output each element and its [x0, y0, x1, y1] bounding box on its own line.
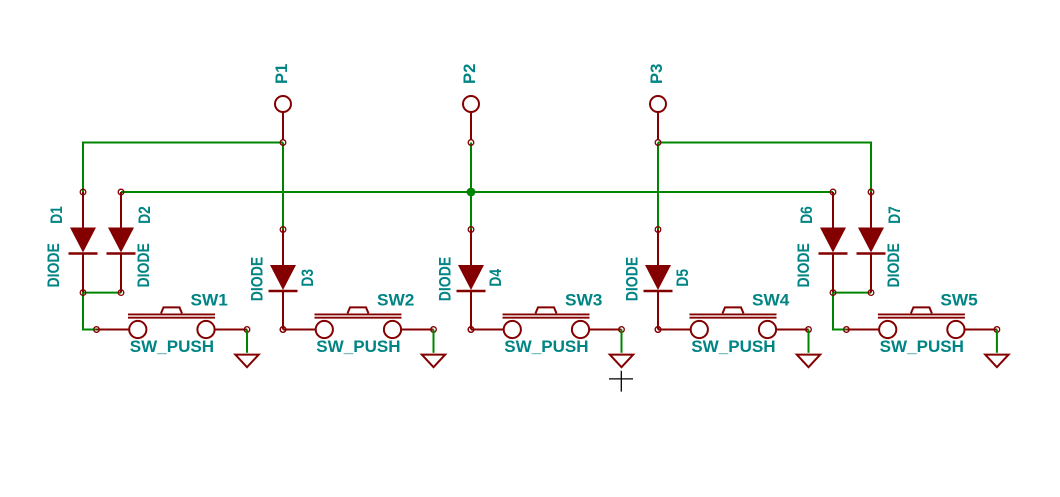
svg-text:SW_PUSH: SW_PUSH [316, 337, 400, 356]
ground [610, 355, 633, 368]
svg-text:DIODE: DIODE [134, 243, 153, 287]
svg-text:SW_PUSH: SW_PUSH [130, 337, 214, 356]
cursor crosshair [609, 371, 633, 392]
switch SW1 [94, 307, 250, 338]
wire P1 to D1 top [83, 143, 283, 193]
svg-text:SW5: SW5 [940, 290, 977, 309]
value DIODE (D3) [248, 257, 267, 301]
label P2 [460, 64, 479, 84]
diode D7 [857, 189, 886, 295]
label D5 [673, 269, 692, 287]
label P1 [272, 64, 291, 84]
diode D5 [644, 227, 673, 333]
wire to ground [433, 330, 435, 353]
ground [985, 355, 1008, 368]
value DIODE (D2) [134, 243, 153, 287]
connector pin P1 [275, 96, 291, 145]
wire to ground [996, 330, 998, 353]
svg-text:D3: D3 [298, 269, 317, 287]
svg-text:P2: P2 [460, 64, 479, 84]
wire D1-D2 bottoms [83, 292, 121, 294]
svg-text:P1: P1 [272, 64, 291, 84]
svg-text:D4: D4 [486, 268, 505, 286]
wire P2 down to D4 [470, 143, 472, 230]
ground [235, 355, 258, 368]
svg-text:D2: D2 [135, 206, 154, 224]
switch SW3 [468, 307, 624, 338]
connector pin P3 [650, 96, 666, 145]
label SW5 [940, 290, 977, 309]
svg-text:P3: P3 [647, 64, 666, 84]
switch SW2 [280, 307, 436, 338]
svg-text:D1: D1 [47, 206, 66, 224]
ground [422, 355, 445, 368]
wire D6 bottom to SW5 [833, 293, 846, 330]
ground [797, 355, 820, 368]
svg-text:DIODE: DIODE [884, 243, 903, 287]
value SW_PUSH (SW3) [504, 337, 588, 356]
diode D2 [107, 189, 136, 295]
value DIODE (D7) [884, 243, 903, 287]
wire to ground [621, 330, 623, 353]
svg-text:SW2: SW2 [377, 290, 414, 309]
diode D4 [457, 227, 486, 333]
label SW3 [565, 290, 602, 309]
svg-text:D6: D6 [797, 206, 816, 224]
wire P1 down to D3 [282, 143, 284, 230]
svg-text:DIODE: DIODE [623, 257, 642, 301]
label D4 [486, 268, 505, 286]
wire P3 down to D5 [657, 143, 659, 230]
label D1 [47, 206, 66, 224]
junction node at P2/bus crossing [467, 188, 476, 197]
value SW_PUSH (SW2) [316, 337, 400, 356]
value SW_PUSH (SW4) [691, 337, 775, 356]
wire bus D2-D6 [121, 191, 833, 193]
label SW2 [377, 290, 414, 309]
svg-text:DIODE: DIODE [436, 257, 455, 301]
svg-text:SW_PUSH: SW_PUSH [504, 337, 588, 356]
svg-text:D7: D7 [885, 206, 904, 224]
wire D1 bottom to SW1 [83, 293, 97, 330]
svg-text:DIODE: DIODE [44, 243, 63, 287]
svg-text:SW_PUSH: SW_PUSH [880, 337, 964, 356]
value DIODE (D1) [44, 243, 63, 287]
value SW_PUSH (SW5) [880, 337, 964, 356]
wire D6-D7 bottoms [833, 292, 871, 294]
svg-text:DIODE: DIODE [248, 257, 267, 301]
value DIODE (D4) [436, 257, 455, 301]
value DIODE (D5) [623, 257, 642, 301]
diode D3 [269, 227, 298, 333]
label P3 [647, 64, 666, 84]
value DIODE (D6) [794, 243, 813, 287]
svg-text:D5: D5 [673, 269, 692, 287]
diode D1 [69, 189, 98, 295]
label D3 [298, 269, 317, 287]
label D2 [135, 206, 154, 224]
switch SW4 [655, 307, 811, 338]
wire P3 to D7 top [658, 143, 871, 193]
connector pin P2 [463, 96, 479, 145]
label SW4 [752, 290, 790, 309]
diode D6 [819, 189, 848, 295]
value SW_PUSH (SW1) [130, 337, 214, 356]
svg-text:SW3: SW3 [565, 290, 602, 309]
svg-text:SW4: SW4 [752, 290, 790, 309]
svg-text:DIODE: DIODE [794, 243, 813, 287]
svg-text:SW1: SW1 [191, 290, 228, 309]
label D6 [797, 206, 816, 224]
label SW1 [191, 290, 228, 309]
label D7 [885, 206, 904, 224]
wire to ground [246, 330, 248, 353]
switch SW5 [844, 307, 1000, 338]
svg-text:SW_PUSH: SW_PUSH [691, 337, 775, 356]
wire to ground [808, 330, 810, 353]
